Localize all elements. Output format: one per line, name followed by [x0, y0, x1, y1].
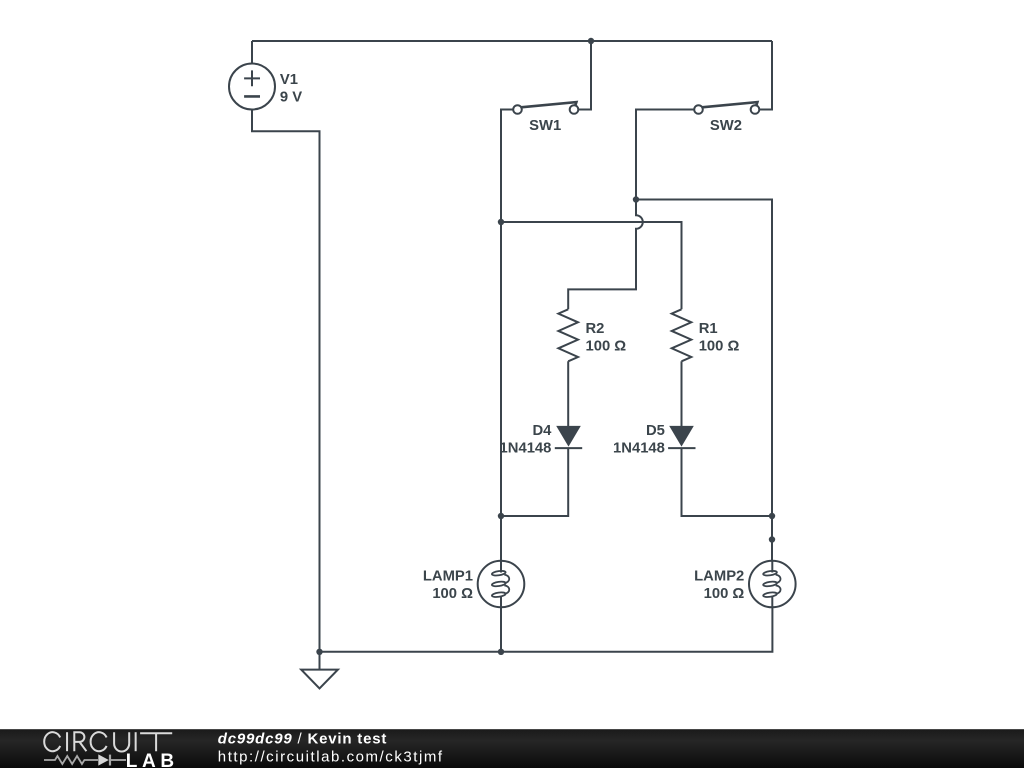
- svg-text:1N4148: 1N4148: [500, 440, 552, 456]
- svg-text:R2: R2: [586, 321, 605, 337]
- svg-text:http://circuitlab.com/ck3tjmf: http://circuitlab.com/ck3tjmf: [218, 748, 444, 765]
- svg-text:D4: D4: [532, 423, 552, 439]
- svg-text:SW2: SW2: [710, 118, 742, 134]
- svg-text:dc99dc99 / Kevin test: dc99dc99 / Kevin test: [218, 731, 387, 748]
- svg-text:LAMP1: LAMP1: [423, 568, 473, 584]
- svg-text:100 Ω: 100 Ω: [704, 586, 745, 602]
- svg-text:R1: R1: [699, 321, 718, 337]
- svg-text:D5: D5: [646, 423, 665, 439]
- svg-text:9 V: 9 V: [280, 90, 302, 106]
- svg-text:LAMP2: LAMP2: [694, 568, 744, 584]
- svg-text:100 Ω: 100 Ω: [699, 338, 740, 354]
- svg-text:100 Ω: 100 Ω: [432, 586, 473, 602]
- svg-text:1N4148: 1N4148: [613, 440, 665, 456]
- svg-text:100 Ω: 100 Ω: [586, 338, 627, 354]
- svg-text:SW1: SW1: [529, 118, 561, 134]
- svg-text:LAB: LAB: [126, 751, 179, 768]
- svg-text:V1: V1: [280, 72, 298, 88]
